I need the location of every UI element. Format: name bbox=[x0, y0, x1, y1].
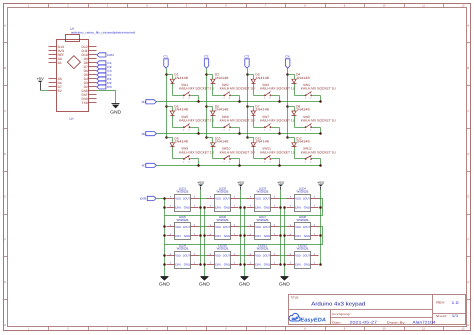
junction row R2 / cell 6 bbox=[238, 132, 241, 135]
wire +5V rail column 3 bbox=[280, 190, 282, 265]
ground symbol (LED column 4) bbox=[279, 277, 290, 287]
svg-text:DIN: DIN bbox=[175, 263, 181, 267]
junction col C3 / cell 11 bbox=[246, 136, 249, 139]
svg-text:VDD: VDD bbox=[255, 254, 262, 258]
svg-text:E: E bbox=[467, 196, 469, 199]
junction LED11 GND / GND rail bbox=[243, 263, 246, 266]
svg-text:DIN: DIN bbox=[107, 53, 114, 57]
svg-text:1N4148: 1N4148 bbox=[215, 140, 229, 144]
LED12 WS2812B bbox=[287, 244, 319, 269]
svg-text:DIN: DIN bbox=[295, 234, 301, 238]
svg-text:VDD: VDD bbox=[215, 254, 222, 258]
wire diode D5 to switch SW5 bbox=[173, 127, 184, 129]
svg-text:VDD: VDD bbox=[175, 225, 182, 229]
svg-text:GND: GND bbox=[184, 206, 191, 210]
junction LED11 VDD / +5V rail bbox=[279, 263, 282, 266]
junction LED1 VDD / +5V rail bbox=[199, 206, 202, 209]
svg-text:1N4148: 1N4148 bbox=[215, 76, 229, 80]
power flag +5V (LED column 3) bbox=[277, 180, 285, 190]
switch SW4 KAILH MX SOCKET 1U bbox=[301, 83, 337, 100]
junction LED6 GND / GND rail bbox=[203, 234, 206, 237]
wire LED5 DOUT to LED6 DIN bbox=[199, 226, 207, 228]
svg-text:DIN: DIN bbox=[140, 197, 147, 201]
junction LED10 GND / GND rail bbox=[203, 263, 206, 266]
junction row R3 / cell 10 bbox=[238, 164, 241, 167]
svg-text:KAILH MX SOCKET 1U: KAILH MX SOCKET 1U bbox=[179, 119, 215, 123]
svg-text:C4: C4 bbox=[285, 55, 290, 59]
junction col C2 / cell 10 bbox=[205, 136, 208, 139]
svg-text:1N4148: 1N4148 bbox=[174, 76, 188, 80]
net flag C4 on pin bbox=[97, 73, 112, 77]
net port C4 (column 4) bbox=[285, 55, 290, 68]
svg-text:VDD: VDD bbox=[215, 197, 222, 201]
wire cell 1 branch bbox=[167, 74, 173, 76]
title block bbox=[289, 295, 466, 325]
svg-text:VDD: VDD bbox=[295, 197, 302, 201]
svg-text:GND: GND bbox=[304, 206, 311, 210]
wire GND rail column 2 bbox=[204, 208, 206, 277]
wire +5V to pin 5V bbox=[41, 90, 49, 92]
svg-text:+5V: +5V bbox=[37, 76, 45, 81]
svg-text:+5V: +5V bbox=[197, 180, 205, 185]
svg-text:arduino_nano_lib_unusedpinsrem: arduino_nano_lib_unusedpinsremoved bbox=[71, 31, 135, 35]
switch SW9 KAILH MX SOCKET 1U bbox=[179, 147, 215, 164]
svg-text:DIN: DIN bbox=[295, 206, 301, 210]
wire row R3 bbox=[157, 165, 321, 167]
svg-text:WS2812B: WS2812B bbox=[217, 247, 229, 251]
svg-text:DIN: DIN bbox=[295, 263, 301, 267]
svg-text:DIN: DIN bbox=[215, 206, 221, 210]
svg-text:WS2812B: WS2812B bbox=[297, 218, 309, 222]
svg-text:GND: GND bbox=[199, 281, 210, 286]
svg-text:GND: GND bbox=[279, 281, 290, 286]
wire LED10 DOUT to LED11 DIN bbox=[239, 255, 247, 257]
wire GND rail column 4 bbox=[284, 208, 286, 277]
LED4 WS2812B bbox=[287, 186, 319, 211]
junction LED9 DIN / daisy chain bbox=[163, 254, 166, 257]
diode D2 1N4148 bbox=[211, 73, 229, 84]
diode D5 1N4148 bbox=[170, 105, 188, 116]
junction col C4 / cell 4 bbox=[286, 73, 289, 76]
switch SW7 KAILH MX SOCKET 1U bbox=[260, 115, 296, 132]
svg-text:DOUT: DOUT bbox=[223, 197, 231, 201]
svg-text:12: 12 bbox=[462, 328, 465, 331]
wire column C1 bbox=[166, 69, 168, 138]
svg-text:GND: GND bbox=[304, 234, 311, 238]
wire daisy wrap row2-row3 bbox=[165, 227, 323, 245]
svg-text:10: 10 bbox=[383, 5, 386, 8]
svg-text:H: H bbox=[4, 324, 6, 327]
svg-text:DOUT: DOUT bbox=[303, 197, 311, 201]
wire row R2 bbox=[157, 133, 321, 135]
svg-text:GND: GND bbox=[264, 263, 271, 267]
svg-text:DIN: DIN bbox=[175, 234, 181, 238]
svg-text:KAILH MX SOCKET 1U: KAILH MX SOCKET 1U bbox=[179, 150, 215, 154]
wire diode D11 to switch SW11 bbox=[254, 158, 265, 160]
svg-text:VDD: VDD bbox=[175, 197, 182, 201]
junction row R1 / cell 4 bbox=[319, 100, 322, 103]
svg-text:G: G bbox=[4, 281, 6, 284]
wire switch SW11 to row R3 bbox=[272, 158, 280, 160]
junction col C1 / cell 1 bbox=[165, 73, 168, 76]
svg-text:GND: GND bbox=[224, 263, 231, 267]
svg-text:KAILH MX SOCKET 1U: KAILH MX SOCKET 1U bbox=[301, 150, 337, 154]
wire switch SW3 to row R1 bbox=[272, 95, 280, 97]
wire cell 8 branch bbox=[288, 106, 295, 108]
svg-text:EasyEDA: EasyEDA bbox=[300, 318, 326, 324]
svg-text:U?: U? bbox=[70, 117, 74, 121]
EasyEDA logo bbox=[289, 313, 326, 323]
svg-text:GND: GND bbox=[224, 206, 231, 210]
LED9 WS2812B bbox=[167, 244, 199, 269]
svg-text:DIN: DIN bbox=[255, 206, 261, 210]
junction col C1 / cell 5 bbox=[165, 105, 168, 108]
svg-text:DOUT: DOUT bbox=[223, 225, 231, 229]
svg-text:GND: GND bbox=[264, 234, 271, 238]
wire diode D3 to switch SW3 bbox=[254, 95, 265, 97]
diode D10 1N4148 bbox=[211, 136, 229, 146]
svg-text:A1: A1 bbox=[58, 61, 62, 65]
wire +5V rail column 1 bbox=[200, 190, 202, 265]
arduino nano U? (IC) bbox=[49, 27, 136, 121]
svg-text:B: B bbox=[4, 67, 6, 70]
svg-text:KAILH MX SOCKET 1U: KAILH MX SOCKET 1U bbox=[301, 87, 337, 91]
junction row R3 / cell 11 bbox=[278, 164, 281, 167]
junction row R1 / cell 2 bbox=[238, 100, 241, 103]
svg-text:WS2812B: WS2812B bbox=[177, 189, 189, 193]
svg-text:KAILH MX SOCKET 1U: KAILH MX SOCKET 1U bbox=[220, 87, 256, 91]
junction col C4 / cell 8 bbox=[286, 105, 289, 108]
power flag +5V (LED column 4) bbox=[317, 180, 325, 190]
svg-text:DOUT: DOUT bbox=[303, 254, 311, 258]
svg-text:KAILH MX SOCKET 1U: KAILH MX SOCKET 1U bbox=[260, 119, 296, 123]
svg-text:WS2812B: WS2812B bbox=[177, 247, 189, 251]
junction row R3 / cell 9 bbox=[197, 164, 200, 167]
junction LED12 GND / GND rail bbox=[283, 263, 286, 266]
svg-text:WS2812B: WS2812B bbox=[257, 218, 269, 222]
svg-text:VDD: VDD bbox=[295, 254, 302, 258]
junction col C2 / cell 6 bbox=[205, 105, 208, 108]
junction LED4 VDD / +5V rail bbox=[319, 206, 322, 209]
wire GND rail column 1 bbox=[164, 199, 166, 277]
LED6 WS2812B bbox=[207, 215, 239, 240]
LED8 WS2812B bbox=[287, 215, 319, 240]
net port C2 (column 2) bbox=[204, 55, 209, 68]
svg-text:DOUT: DOUT bbox=[183, 225, 191, 229]
svg-text:DOUT: DOUT bbox=[303, 225, 311, 229]
net flag R1 on pin bbox=[97, 77, 112, 81]
svg-text:C2: C2 bbox=[204, 55, 209, 59]
net port C1 (column 1) bbox=[163, 55, 168, 68]
net flag DIN on pin bbox=[97, 53, 114, 57]
svg-text:Sheet:: Sheet: bbox=[436, 314, 448, 318]
wire switch SW10 to row R3 bbox=[231, 158, 240, 160]
wire cell 11 branch bbox=[248, 137, 254, 139]
junction row R1 / cell 1 bbox=[197, 100, 200, 103]
wire LED7 DOUT to LED8 DIN bbox=[279, 226, 287, 228]
ground symbol (U? GND) bbox=[110, 104, 121, 115]
wire LED9 DOUT to LED10 DIN bbox=[199, 255, 207, 257]
svg-text:WS2812B: WS2812B bbox=[297, 247, 309, 251]
wire cell 4 branch bbox=[288, 74, 295, 76]
junction LED3 VDD / +5V rail bbox=[279, 206, 282, 209]
junction row R3 / cell 12 bbox=[319, 164, 322, 167]
LED3 WS2812B bbox=[247, 186, 279, 211]
junction LED1 GND / GND rail bbox=[163, 206, 166, 209]
svg-text:GND: GND bbox=[159, 281, 170, 286]
svg-text:KAILH MX SOCKET 1U: KAILH MX SOCKET 1U bbox=[260, 87, 296, 91]
svg-text:1N4148: 1N4148 bbox=[215, 108, 229, 112]
switch SW10 KAILH MX SOCKET 1U bbox=[220, 147, 256, 164]
diode D6 1N4148 bbox=[211, 105, 229, 116]
LED1 WS2812B bbox=[167, 186, 199, 211]
junction DIN wire / rail bbox=[163, 197, 166, 200]
svg-text:VDD: VDD bbox=[255, 225, 262, 229]
wire switch SW1 to row R1 bbox=[191, 95, 199, 97]
svg-text:REV:: REV: bbox=[436, 301, 445, 305]
svg-text:WS2812B: WS2812B bbox=[297, 189, 309, 193]
power flag +5V (LED column 2) bbox=[237, 180, 245, 190]
svg-text:GND: GND bbox=[304, 263, 311, 267]
svg-text:KAILH MX SOCKET 1U: KAILH MX SOCKET 1U bbox=[220, 119, 256, 123]
switch SW8 KAILH MX SOCKET 1U bbox=[301, 115, 337, 132]
svg-text:WS2812B: WS2812B bbox=[257, 189, 269, 193]
wire cell 12 branch bbox=[288, 137, 295, 139]
svg-text:WS2812B: WS2812B bbox=[217, 218, 229, 222]
svg-text:1N4148: 1N4148 bbox=[296, 76, 310, 80]
svg-text:DOUT: DOUT bbox=[263, 225, 271, 229]
junction col C3 / cell 7 bbox=[246, 105, 249, 108]
wire cell 3 branch bbox=[248, 74, 254, 76]
junction col C4 / cell 12 bbox=[286, 136, 289, 139]
svg-text:1.0: 1.0 bbox=[452, 301, 459, 305]
wire diode D10 to switch SW10 bbox=[213, 158, 225, 160]
wire column C3 bbox=[247, 69, 249, 138]
svg-text:GND: GND bbox=[184, 234, 191, 238]
switch SW2 KAILH MX SOCKET 1U bbox=[220, 83, 256, 100]
switch SW12 KAILH MX SOCKET 1U bbox=[301, 147, 337, 164]
svg-text:VDD: VDD bbox=[295, 225, 302, 229]
svg-text:1N4148: 1N4148 bbox=[255, 108, 269, 112]
junction row R2 / cell 8 bbox=[319, 132, 322, 135]
wire LED2 DOUT to LED3 DIN bbox=[239, 198, 247, 200]
LED10 WS2812B bbox=[207, 244, 239, 269]
svg-text:DOUT: DOUT bbox=[263, 197, 271, 201]
svg-text:Alan72104: Alan72104 bbox=[413, 321, 436, 325]
wire diode D1 to switch SW1 bbox=[173, 95, 184, 97]
svg-text:DOUT: DOUT bbox=[223, 254, 231, 258]
net port R2 (row 2) bbox=[142, 132, 157, 136]
junction LED3 GND / GND rail bbox=[243, 206, 246, 209]
svg-text:GND: GND bbox=[110, 109, 121, 114]
svg-text:1N4148: 1N4148 bbox=[296, 108, 310, 112]
svg-text:KAILH MX SOCKET 1U: KAILH MX SOCKET 1U bbox=[179, 87, 215, 91]
svg-text:D: D bbox=[467, 153, 469, 156]
wire switch SW7 to row R2 bbox=[272, 127, 280, 129]
svg-text:GND: GND bbox=[224, 234, 231, 238]
junction LED9 VDD / +5V rail bbox=[199, 263, 202, 266]
svg-text:VDD: VDD bbox=[215, 225, 222, 229]
junction row R2 / cell 7 bbox=[278, 132, 281, 135]
wire switch SW2 to row R1 bbox=[231, 95, 240, 97]
svg-text:WS2812B: WS2812B bbox=[257, 247, 269, 251]
diode D7 1N4148 bbox=[251, 105, 269, 116]
svg-text:1N4148: 1N4148 bbox=[255, 76, 269, 80]
svg-text:TITLE:: TITLE: bbox=[291, 296, 300, 300]
wire switch SW6 to row R2 bbox=[231, 127, 240, 129]
svg-text:R3: R3 bbox=[107, 85, 112, 89]
wire GND pin to ground bbox=[97, 91, 116, 104]
junction LED12 VDD / +5V rail bbox=[319, 263, 322, 266]
wire GND rail column 3 bbox=[244, 208, 246, 277]
svg-text:Arduino 4x3 keypad: Arduino 4x3 keypad bbox=[311, 302, 365, 308]
svg-text:C1: C1 bbox=[163, 55, 168, 59]
wire cell 5 branch bbox=[167, 106, 173, 108]
svg-text:GND: GND bbox=[239, 281, 250, 286]
svg-text:1N4148: 1N4148 bbox=[174, 140, 188, 144]
wire diode D6 to switch SW6 bbox=[213, 127, 225, 129]
junction LED5 DIN / daisy chain bbox=[163, 225, 166, 228]
diode D1 1N4148 bbox=[170, 73, 188, 84]
svg-text:DOUT: DOUT bbox=[183, 254, 191, 258]
wire LED3 DOUT to LED4 DIN bbox=[279, 198, 287, 200]
ground symbol (LED column 3) bbox=[239, 277, 250, 287]
junction LED7 GND / GND rail bbox=[243, 234, 246, 237]
wire diode D9 to switch SW9 bbox=[173, 158, 184, 160]
svg-text:DOUT: DOUT bbox=[183, 197, 191, 201]
LED2 WS2812B bbox=[207, 186, 239, 211]
net port C3 (column 3) bbox=[244, 55, 249, 68]
diode D3 1N4148 bbox=[251, 73, 269, 84]
net port R1 (row 1) bbox=[142, 100, 157, 104]
svg-text:KAILH MX SOCKET 1U: KAILH MX SOCKET 1U bbox=[220, 150, 256, 154]
junction LED7 VDD / +5V rail bbox=[279, 234, 282, 237]
net flag C3 on pin bbox=[97, 69, 112, 73]
wire LED6 DOUT to LED7 DIN bbox=[239, 226, 247, 228]
svg-text:TX0: TX0 bbox=[82, 101, 89, 105]
wire cell 6 branch bbox=[207, 106, 213, 108]
switch SW1 KAILH MX SOCKET 1U bbox=[179, 83, 215, 100]
wire cell 9 branch bbox=[167, 137, 173, 139]
switch SW3 KAILH MX SOCKET 1U bbox=[260, 83, 296, 100]
svg-text:+5V: +5V bbox=[317, 180, 325, 185]
wire diode D4 to switch SW4 bbox=[295, 95, 306, 97]
junction col C2 / cell 2 bbox=[205, 73, 208, 76]
svg-text:KAILH MX SOCKET 1U: KAILH MX SOCKET 1U bbox=[301, 119, 337, 123]
svg-text:C3: C3 bbox=[244, 55, 249, 59]
svg-text:A: A bbox=[467, 24, 469, 27]
svg-text:B: B bbox=[467, 67, 469, 70]
wire switch SW9 to row R3 bbox=[191, 158, 199, 160]
junction LED8 VDD / +5V rail bbox=[319, 234, 322, 237]
svg-text:Drawn By:: Drawn By: bbox=[387, 320, 406, 324]
svg-text:DIN: DIN bbox=[255, 263, 261, 267]
svg-text:10: 10 bbox=[383, 328, 386, 331]
wire daisy wrap row1-row2 bbox=[165, 199, 323, 216]
svg-text:DIN: DIN bbox=[215, 234, 221, 238]
svg-text:12: 12 bbox=[462, 5, 465, 8]
svg-text:DIN: DIN bbox=[255, 234, 261, 238]
wire switch SW8 to row R2 bbox=[312, 127, 321, 129]
svg-text:+5V: +5V bbox=[237, 180, 245, 185]
svg-text:G: G bbox=[467, 281, 469, 284]
svg-text:WS2812B: WS2812B bbox=[177, 218, 189, 222]
svg-text:1N4148: 1N4148 bbox=[255, 140, 269, 144]
wire diode D2 to switch SW2 bbox=[213, 95, 225, 97]
svg-text:GND: GND bbox=[264, 206, 271, 210]
svg-text:1/1: 1/1 bbox=[452, 314, 459, 318]
svg-text:1N4148: 1N4148 bbox=[296, 140, 310, 144]
wire LED1 DOUT to LED2 DIN bbox=[199, 198, 207, 200]
wire cell 2 branch bbox=[207, 74, 213, 76]
svg-text:H: H bbox=[467, 324, 469, 327]
junction LED4 GND / GND rail bbox=[283, 206, 286, 209]
svg-text:E: E bbox=[4, 196, 6, 199]
switch SW11 KAILH MX SOCKET 1U bbox=[260, 147, 296, 164]
svg-text:WS2812B: WS2812B bbox=[217, 189, 229, 193]
diode D8 1N4148 bbox=[292, 105, 310, 116]
diode D11 1N4148 bbox=[251, 136, 269, 146]
diode D9 1N4148 bbox=[170, 136, 188, 146]
junction col C1 / cell 9 bbox=[165, 136, 168, 139]
svg-text:Company:: Company: bbox=[332, 312, 351, 316]
svg-text:2021-05-27: 2021-05-27 bbox=[350, 321, 378, 325]
ground symbol (LED column 1) bbox=[159, 277, 170, 287]
wire cell 7 branch bbox=[248, 106, 254, 108]
ground symbol (LED column 2) bbox=[199, 277, 210, 287]
junction LED5 GND / GND rail bbox=[163, 234, 166, 237]
junction row R2 / cell 5 bbox=[197, 132, 200, 135]
wire +5V rail column 4 bbox=[320, 190, 322, 265]
wire column C2 bbox=[206, 69, 208, 138]
svg-text:VDD: VDD bbox=[255, 197, 262, 201]
LED7 WS2812B bbox=[247, 215, 279, 240]
svg-text:Date:: Date: bbox=[332, 320, 342, 324]
svg-text:GND: GND bbox=[184, 263, 191, 267]
junction LED5 VDD / +5V rail bbox=[199, 234, 202, 237]
svg-text:A: A bbox=[4, 24, 6, 27]
LED11 WS2812B bbox=[247, 244, 279, 269]
svg-text:11: 11 bbox=[422, 5, 425, 8]
switch SW5 KAILH MX SOCKET 1U bbox=[179, 115, 215, 132]
svg-text:DIN: DIN bbox=[175, 206, 181, 210]
wire switch SW12 to row R3 bbox=[312, 158, 321, 160]
wire cell 10 branch bbox=[207, 137, 213, 139]
switch SW6 KAILH MX SOCKET 1U bbox=[220, 115, 256, 132]
wire DIN to LED1 bbox=[157, 198, 167, 200]
junction col C3 / cell 3 bbox=[246, 73, 249, 76]
net port R3 (row 3) bbox=[142, 163, 157, 167]
junction LED10 VDD / +5V rail bbox=[239, 263, 242, 266]
wire switch SW5 to row R2 bbox=[191, 127, 199, 129]
power flag +5V (LED column 1) bbox=[197, 180, 205, 190]
wire column C4 bbox=[287, 69, 289, 138]
net flag R2 on pin bbox=[97, 81, 112, 85]
net port DIN (LED data in) bbox=[140, 196, 156, 200]
net flag C2 on pin bbox=[97, 65, 112, 69]
junction LED8 GND / GND rail bbox=[283, 234, 286, 237]
wire +5V rail column 2 bbox=[240, 190, 242, 265]
net flag C1 on pin bbox=[97, 61, 112, 65]
wire LED11 DOUT to LED12 DIN bbox=[279, 255, 287, 257]
junction LED2 VDD / +5V rail bbox=[239, 206, 242, 209]
junction LED9 GND / GND rail bbox=[163, 263, 166, 266]
svg-text:VDD: VDD bbox=[175, 254, 182, 258]
junction LED6 VDD / +5V rail bbox=[239, 234, 242, 237]
svg-text:11: 11 bbox=[422, 328, 425, 331]
net flag R3 on pin bbox=[97, 85, 112, 89]
+5V power flag (left of U?) bbox=[37, 76, 45, 90]
